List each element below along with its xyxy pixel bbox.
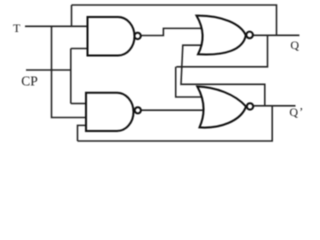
NAND U1 bubble	[134, 33, 140, 39]
wire T to bottom NAND (vertical x=51.5)	[52, 26, 87, 117]
wire CP vertical	[70, 49, 72, 104]
NOR U3 bubble	[246, 32, 253, 39]
wire top feedback line	[72, 5, 277, 35]
svg-text:Q: Q	[289, 105, 298, 119]
wire CP to top NAND input2	[71, 48, 88, 50]
svg-text:Q: Q	[290, 38, 299, 52]
wire Q' output	[253, 105, 296, 107]
svg-text:T: T	[13, 21, 21, 35]
NAND U1 body	[88, 17, 135, 56]
wire Q output	[253, 34, 299, 36]
NOR U4 body	[197, 87, 246, 128]
wire CP to bottom NAND input1	[71, 103, 86, 105]
NOR U3 body	[197, 16, 246, 55]
wire U1 output to U3 input1 (step)	[141, 28, 202, 35]
NAND U2 body	[86, 93, 134, 131]
wire bottom feedback line	[78, 106, 273, 141]
wire T input	[25, 25, 88, 27]
wire CP input	[26, 69, 71, 71]
NOR U4 bubble	[247, 103, 253, 109]
wire Q to bottom NOR input1 (W2)	[176, 35, 268, 97]
wire top feedback vertical from T line	[71, 5, 73, 26]
NAND U2 bubble	[135, 107, 141, 113]
svg-text:CP: CP	[21, 74, 38, 89]
wire U2 output to U4 input2	[141, 109, 203, 111]
wire U3 input2 from Q' (W1)	[181, 45, 265, 106]
svg-text:’: ’	[299, 104, 303, 118]
wire bottom NAND input3 from bottom line	[78, 125, 87, 141]
